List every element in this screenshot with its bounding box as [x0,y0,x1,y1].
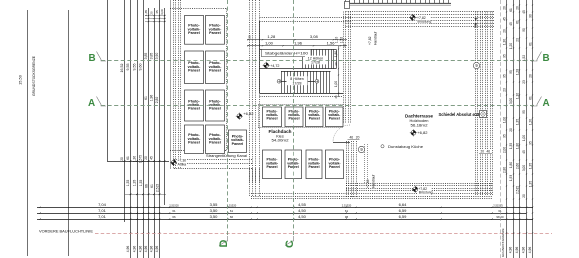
svg-text:1,30: 1,30 [502,39,506,45]
svg-text:66: 66 [172,215,176,219]
PV panel P4 [206,51,225,84]
section mark D bottom [219,236,228,246]
svg-text:1,35: 1,35 [528,163,532,169]
PV panel P3 [185,51,204,84]
datum +7,30 Attika [171,160,176,165]
section line A-A [101,105,537,107]
red Baufluchtlinie dashed line [95,233,552,235]
svg-text:23: 23 [522,80,526,84]
svg-text:95: 95 [502,134,506,138]
svg-text:C: C [284,240,296,248]
stair dimension line 2 [247,45,347,47]
PV panel B4 [326,150,344,179]
svg-text:+7,82: +7,82 [368,36,372,45]
svg-text:Paneel: Paneel [308,165,319,169]
svg-text:1,28: 1,28 [515,69,519,75]
svg-text:4,96: 4,96 [139,246,143,253]
stair upper flight treads [302,49,304,68]
section line B-B overlay [101,60,537,62]
svg-text:90: 90 [522,28,526,32]
PV panel B3 [306,150,322,179]
svg-text:7,04: 7,04 [98,202,107,207]
PV panel A3 [306,107,324,127]
svg-text:4,96: 4,96 [509,247,513,254]
svg-text:1,35: 1,35 [509,143,513,149]
svg-text:4,96: 4,96 [522,247,526,254]
svg-text:2,51575: 2,51575 [493,203,503,207]
stair north wall band [260,17,353,19]
svg-text:17/28: 17/28 [311,61,320,65]
circled 9 door [358,146,364,152]
svg-text:20: 20 [356,136,360,140]
svg-text:61: 61 [150,184,154,188]
datum +6,82 terrace [411,130,416,135]
railing comb teeth [345,0,347,3]
svg-text:Paneel: Paneel [266,117,277,121]
svg-text:45: 45 [522,150,526,154]
svg-text:20: 20 [528,74,532,78]
stair upper flight boundary [260,49,337,51]
PV panel P2 [206,16,225,45]
svg-text:90: 90 [528,14,532,18]
door dims 46 20 [349,135,361,139]
svg-text:3,85: 3,85 [150,53,154,60]
svg-text:Stabgeländer H=100: Stabgeländer H=100 [265,52,308,56]
svg-text:3,00: 3,00 [522,165,526,171]
datum +4,72 [264,63,269,68]
svg-text:20: 20 [150,11,154,15]
datum +7,82 Brüstung north [410,15,415,20]
datum +6,82 flat roof [237,114,242,119]
stair landing dim line [338,46,340,97]
svg-text:61: 61 [172,209,176,213]
svg-text:61: 61 [528,42,532,46]
svg-text:4,50: 4,50 [298,208,307,213]
svg-text:2,80: 2,80 [155,97,159,104]
svg-text:Paneel: Paneel [266,165,277,169]
section line B-B [101,60,537,62]
svg-text:+4,72: +4,72 [270,64,279,68]
svg-text:3,08: 3,08 [310,34,319,39]
stair room inner west line [259,21,261,93]
terrace floor inner edge [364,144,366,183]
svg-text:4,55: 4,55 [298,202,307,207]
svg-text:66: 66 [145,184,149,188]
svg-text:6,59: 6,59 [399,214,408,219]
svg-text:61: 61 [126,156,130,160]
Strangentlüftung Kanal duct band [174,159,253,161]
svg-text:Paneel: Paneel [329,165,340,169]
svg-text:15,50: 15,50 [18,74,23,85]
svg-text:20: 20 [502,6,506,10]
svg-text:4,96: 4,96 [144,246,148,253]
stair dimension line 1 [247,39,347,41]
svg-text:61: 61 [509,8,513,12]
svg-text:3,50: 3,50 [210,208,219,213]
svg-text:61: 61 [528,96,532,100]
svg-text:+6,82: +6,82 [417,130,428,135]
label 12 Höhen [305,56,327,65]
section line C overlay [293,0,295,236]
svg-text:Paneel: Paneel [329,117,340,121]
stair-terrace west wall band upper [343,12,345,124]
svg-text:1,96: 1,96 [150,95,154,102]
svg-text:9,55: 9,55 [126,64,130,71]
svg-text:GRUNDSTÜCKSGRENZE: GRUNDSTÜCKSGRENZE [31,56,36,96]
datum +7,82 Brüstung south [413,187,418,192]
svg-text:Brüstung: Brüstung [419,191,433,195]
svg-text:45: 45 [334,95,338,99]
left dimension chain lines [124,0,126,222]
svg-text:Paneel: Paneel [188,68,200,72]
door swing arc [333,125,350,142]
top-left dim lines [145,15,166,17]
svg-text:Paneel: Paneel [188,140,200,144]
svg-text:1,00: 1,00 [502,117,506,123]
svg-text:46: 46 [487,150,491,154]
svg-text:2,00: 2,00 [502,147,506,153]
section mark A left [97,97,107,107]
right chain ticks [506,4,507,5]
svg-text:1,10: 1,10 [515,93,519,99]
stair west wall band [249,0,251,183]
svg-text:Paneel: Paneel [209,31,221,35]
svg-text:23: 23 [502,88,506,92]
stair room south wall [260,93,344,95]
svg-text:20: 20 [334,62,338,66]
railing comb lower line [344,5,451,7]
railing comb band baseline [344,3,451,5]
svg-text:61: 61 [230,209,234,213]
svg-text:1,96: 1,96 [294,41,303,46]
svg-text:Dunstabzug Küche: Dunstabzug Küche [388,144,424,149]
section mark B right [531,52,542,62]
section line D vertical [227,0,229,236]
svg-text:1,20: 1,20 [509,43,513,49]
bottom dimension line row 3 [37,219,533,221]
label Stabgeländer box [262,50,312,57]
building south edge band [251,193,492,195]
PV panel P5 [185,90,204,121]
stair handrail lower flight [279,81,317,83]
svg-text:23: 23 [515,38,519,42]
svg-text:2,80: 2,80 [502,167,506,173]
svg-text:A: A [88,98,95,109]
svg-text:Schiedel Absolut ø18: Schiedel Absolut ø18 [439,112,481,117]
svg-text:4,96: 4,96 [515,247,519,254]
dimension ticks y194 [125,194,166,196]
svg-text:95: 95 [522,110,526,114]
south edge of PV field enclosure [170,150,227,152]
svg-text:61: 61 [515,20,519,24]
property boundary line left [27,10,29,256]
svg-text:3,55: 3,55 [210,202,219,207]
PV panel P1 [185,16,204,45]
svg-text:7,01: 7,01 [98,214,107,219]
svg-text:45: 45 [155,10,159,14]
svg-text:1,35: 1,35 [133,180,137,187]
PV panel A1 [263,107,282,127]
east wall dims 20 46 [480,149,492,153]
svg-text:2,60: 2,60 [515,163,519,169]
svg-text:20: 20 [248,35,252,39]
svg-text:Handlauf: Handlauf [374,32,378,45]
PV panel B2 [285,150,302,179]
svg-text:20: 20 [509,128,513,132]
svg-text:1,00: 1,00 [265,41,274,46]
svg-text:1,52: 1,52 [340,37,344,44]
svg-text:2,51520: 2,51520 [169,203,179,207]
svg-text:Paneel: Paneel [209,68,221,72]
Dunstabzug Küche vent [381,145,384,148]
svg-text:9,60: 9,60 [139,64,143,71]
svg-text:6,59: 6,59 [399,208,408,213]
PV panel P6 [206,90,225,121]
PV row A enclosure [259,104,344,106]
PV panel A4 [326,107,344,127]
svg-text:2,515: 2,515 [515,186,519,194]
svg-text:66: 66 [230,215,234,219]
svg-text:95: 95 [502,54,506,58]
svg-text:Paneel: Paneel [288,117,299,121]
svg-text:A: A [543,98,550,109]
section line C vertical [293,0,295,236]
svg-text:+7,30: +7,30 [366,179,370,188]
corner post top [345,2,350,9]
svg-text:20: 20 [343,44,347,48]
svg-text:4,96: 4,96 [150,246,154,253]
svg-text:17/28: 17/28 [293,81,302,85]
dimension ticks mid-left at y161 [124,160,126,162]
svg-text:B: B [543,53,550,64]
section mark C bottom [285,236,294,246]
svg-text:1,35: 1,35 [126,180,130,187]
svg-text:20: 20 [144,156,148,160]
svg-text:1,10: 1,10 [335,37,339,44]
circled 9 east [473,62,479,68]
svg-text:2,515: 2,515 [156,184,160,192]
bottom dimension line row 1 [37,207,533,209]
label Strangentlüftung Kanal [205,153,251,158]
left facade line with corner [107,0,109,161]
boundary line 2 [68,10,70,256]
terrace south parapet band [346,183,492,185]
svg-text:95: 95 [528,141,532,145]
svg-text:95: 95 [509,70,513,74]
svg-text:7,01: 7,01 [98,208,107,213]
svg-text:95: 95 [502,74,506,78]
terrace north parapet band [346,11,495,13]
svg-text:1,35: 1,35 [515,119,519,125]
svg-text:20: 20 [481,150,485,154]
PV panel B1 [263,150,282,179]
svg-text:6,64: 6,64 [399,202,408,207]
svg-text:1,35: 1,35 [139,180,143,187]
PV panel A2 [285,107,303,127]
svg-text:4,96: 4,96 [126,246,130,253]
svg-text:Paneel: Paneel [188,31,200,35]
duct band turn down [249,169,251,197]
svg-text:1,80: 1,80 [334,51,338,57]
svg-text:1,36: 1,36 [133,156,137,162]
red line crossing ticks [130,232,132,234]
svg-text:1,575: 1,575 [139,155,143,163]
svg-text:16,52: 16,52 [120,64,124,73]
door leaf [333,142,350,144]
svg-text:45: 45 [502,17,506,21]
svg-text:20: 20 [502,29,506,33]
svg-text:1,93: 1,93 [509,175,513,181]
svg-text:1,28: 1,28 [267,34,276,39]
svg-text:20: 20 [515,6,519,10]
svg-text:1,00: 1,00 [522,135,526,141]
section line A-A overlay [101,105,537,107]
label 8 Höhen [287,76,308,85]
svg-text:D: D [218,240,230,248]
east edge of PV field enclosure [226,9,228,151]
svg-text:4,96: 4,96 [155,246,159,253]
svg-text:Paneel: Paneel [209,140,221,144]
boundary dashed line right [500,0,502,258]
svg-text:3,90: 3,90 [155,53,159,60]
svg-text:20: 20 [120,157,124,161]
svg-text:45: 45 [509,22,513,26]
handrail post circle right [315,79,319,83]
PV panel P7 [185,125,204,154]
svg-text:1,80: 1,80 [515,143,519,149]
PV panel P8 [206,125,225,154]
section mark B left [97,52,107,62]
svg-text:4,96: 4,96 [133,246,137,253]
svg-text:20: 20 [522,194,526,198]
bottom dimension line row 2 [37,213,526,215]
svg-text:45: 45 [150,156,154,160]
north edge left block [170,8,227,10]
svg-text:1,00: 1,00 [334,81,338,87]
stair lower flight treads [281,71,283,93]
svg-text:3,85: 3,85 [144,53,148,60]
svg-text:1,20: 1,20 [528,119,532,125]
bottom dimension ticks [39,207,41,209]
svg-text:3,00: 3,00 [509,98,513,104]
west attika wall band [170,0,172,169]
svg-text:Paneel: Paneel [309,117,320,121]
terrace west parapet lower band [346,141,348,198]
svg-text:9,55: 9,55 [133,64,137,71]
svg-text:46: 46 [350,136,354,140]
svg-text:4,96: 4,96 [528,247,532,254]
svg-text:Attika: Attika [178,163,187,167]
terrace east parapet band [475,12,477,196]
svg-text:4,50: 4,50 [298,214,307,219]
svg-text:54,00m2: 54,00m2 [272,138,289,143]
svg-text:VORDERE BAUFLUCHTLINIE: VORDERE BAUFLUCHTLINIE [39,229,93,234]
svg-text:3,50: 3,50 [210,214,219,219]
section mark A right [531,97,542,107]
section line D overlay [227,0,229,236]
handrail post circle left [277,79,281,83]
svg-text:Brüstung: Brüstung [418,20,432,24]
svg-text:GRUNDST.GRENZE: GRUNDST.GRENZE [501,228,505,257]
svg-text:1,35: 1,35 [144,10,148,16]
svg-text:Handlauf: Handlauf [372,175,376,188]
svg-text:B: B [89,53,96,64]
right dimension chain lines [506,0,508,258]
svg-text:45: 45 [522,10,526,14]
PV panel P9 offset [229,130,247,153]
svg-text:Paneel: Paneel [232,142,244,146]
svg-text:1,35: 1,35 [528,181,532,187]
parapet arrows right [475,18,477,21]
svg-text:61: 61 [144,96,148,100]
svg-text:Paneel: Paneel [188,107,200,111]
svg-text:98 20: 98 20 [496,215,504,219]
svg-text:56,18m2: 56,18m2 [411,122,428,127]
svg-text:1,80: 1,80 [509,162,513,168]
svg-text:4,00: 4,00 [160,9,164,15]
svg-text:61: 61 [498,209,502,213]
svg-text:Paneel: Paneel [209,107,221,111]
